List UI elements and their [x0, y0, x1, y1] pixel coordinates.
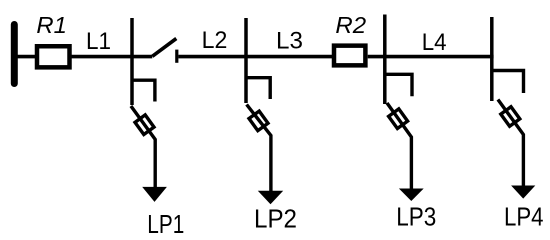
fuse F2 wire	[247, 105, 271, 193]
load arrow LP3	[399, 189, 424, 202]
node bus 1	[130, 18, 134, 105]
svg-text:L3: L3	[276, 27, 303, 54]
hook contact at bus 2	[246, 78, 270, 99]
resistor R2	[334, 46, 365, 66]
hook contact at bus 1	[132, 80, 155, 101]
fuse F3 body	[389, 109, 408, 129]
wire: line L1 segment (R1 to switch pivot)	[72, 55, 153, 59]
load arrow LP4	[511, 186, 535, 199]
load arrow LP1	[142, 187, 167, 202]
wire: line L2 segment (switch to bus 2)	[178, 55, 246, 59]
source busbar (supply terminal)	[11, 25, 18, 84]
wire: line L3 segment (bus 2 to R2)	[246, 55, 332, 59]
svg-text:LP1: LP1	[147, 209, 184, 238]
node bus 3	[383, 15, 387, 105]
svg-text:R2: R2	[335, 12, 366, 38]
svg-text:L2: L2	[202, 27, 228, 54]
fuse F2 body	[249, 111, 268, 131]
wire: line L4 segment (R2 to bus 4)	[368, 55, 494, 59]
svg-text:LP3: LP3	[396, 202, 436, 232]
switch S1 blade (open disconnector)	[152, 39, 176, 57]
svg-text:LP4: LP4	[504, 202, 544, 232]
resistor R1	[37, 46, 70, 67]
svg-text:R1: R1	[36, 12, 67, 38]
switch S1 fixed contact	[175, 50, 178, 63]
fuse F1 body	[135, 115, 154, 135]
wire: source to R1	[16, 55, 36, 59]
hook contact at bus 3	[385, 74, 412, 96]
fuse F1 wire	[131, 106, 155, 188]
fuse F4 wire	[498, 100, 524, 188]
svg-text:LP2: LP2	[254, 204, 297, 234]
hook contact at bus 4	[492, 71, 524, 94]
node bus 2	[244, 18, 248, 103]
node bus 4	[490, 17, 494, 101]
fuse F4 body	[501, 107, 520, 127]
svg-text:L1: L1	[86, 28, 111, 55]
fuse F3 wire	[387, 103, 411, 190]
load arrow LP2	[258, 191, 283, 205]
svg-text:L4: L4	[422, 29, 447, 56]
